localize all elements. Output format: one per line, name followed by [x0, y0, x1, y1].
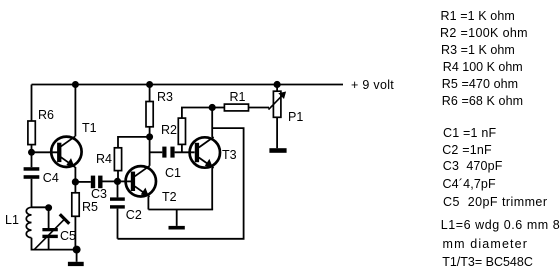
- wire L1 bottom to ground node: [32, 238, 77, 250]
- transistor T1: [51, 136, 81, 167]
- parts list C5: [443, 196, 547, 208]
- ground symbol (P1): [269, 148, 286, 153]
- capacitor C3: [91, 176, 103, 189]
- wire R1 to P1 wiper: [249, 107, 270, 109]
- label T3: [222, 149, 237, 161]
- parts list R1: [441, 10, 515, 22]
- capacitor C5 trimmer plates: [35, 207, 70, 249]
- wire node to C3: [75, 181, 90, 183]
- parts list C2: [442, 144, 492, 156]
- resistor R3: [146, 102, 153, 127]
- capacitor C1: [162, 147, 174, 158]
- label C2: [126, 209, 142, 221]
- wire rail to P1: [276, 85, 278, 92]
- label T1: [82, 122, 97, 134]
- wire R2 bottom to T3 base wire: [181, 144, 183, 152]
- parts list L1 line 2: [443, 238, 529, 250]
- resistor R5: [72, 193, 79, 217]
- wire node to T2 base: [118, 180, 132, 182]
- wire bottom feedback run: [118, 128, 244, 239]
- parts list C1: [443, 127, 496, 139]
- wire P1 to ground: [276, 117, 278, 148]
- resistor R1: [224, 104, 248, 111]
- label C1: [165, 167, 181, 179]
- capacitor C4: [24, 167, 40, 179]
- wire node to T1 base: [32, 151, 58, 153]
- wire C4 to L1: [31, 179, 33, 208]
- wire C1 to T3 base: [175, 151, 195, 153]
- label C4: [43, 172, 59, 184]
- label P1: [288, 111, 303, 123]
- wire R2 top to node A: [182, 108, 212, 119]
- wire R5 to ground node: [74, 216, 76, 249]
- wire +9V power rail: [32, 84, 344, 86]
- wire R3 to rail: [149, 85, 151, 102]
- parts list T1/T3: [442, 256, 533, 268]
- parts list R5: [442, 78, 519, 90]
- inductor L1: [26, 207, 31, 237]
- parts list R3: [441, 44, 515, 56]
- label L1: [5, 214, 19, 226]
- transistor T2: [126, 166, 156, 197]
- potentiometer P1 body: [273, 91, 281, 117]
- wire C2 to bottom feedback wire: [117, 209, 119, 239]
- wire R4 to base node: [117, 171, 119, 182]
- wire T2 collector up to R3: [149, 127, 151, 166]
- node R6/C4/T1-base junction: [28, 149, 35, 156]
- capacitor C2: [110, 197, 125, 208]
- node C3/R4/C2/T2-base: [114, 178, 121, 185]
- ground symbol (left): [68, 262, 84, 266]
- net +9V label: [351, 79, 394, 91]
- parts list C3: [443, 160, 503, 172]
- node T1-emitter/R5/C3: [72, 178, 79, 185]
- node rail/P1: [274, 81, 281, 88]
- label R5: [82, 201, 98, 213]
- wire node to R5: [74, 182, 76, 193]
- trimmer C5 T-bar head: [60, 214, 70, 224]
- resistor R6: [28, 121, 35, 145]
- wire T1 collector to rail: [74, 85, 76, 137]
- wire emitter join: [148, 209, 213, 211]
- node L1/C5 top junction: [45, 204, 52, 211]
- node A R1/R2/T3-collector: [209, 104, 216, 111]
- resistor R4: [114, 148, 121, 171]
- wire T1 emitter to R5 node: [74, 167, 76, 182]
- parts list R2: [440, 27, 528, 39]
- parts list R4: [443, 61, 523, 73]
- label C5: [60, 230, 76, 242]
- node rail/R3: [146, 81, 153, 88]
- trimmer C5 adjustment arrow shaft: [35, 219, 65, 249]
- wire node to C2: [117, 181, 119, 197]
- label R1: [230, 91, 246, 103]
- label C3: [91, 188, 107, 200]
- wire node A to R1: [212, 107, 224, 109]
- label T2: [162, 191, 177, 203]
- wire junction to R4: [118, 137, 150, 148]
- label R3: [157, 91, 173, 103]
- transistor T3: [190, 137, 220, 168]
- resistor R2: [178, 118, 185, 144]
- label R6: [38, 109, 54, 121]
- wire T3 collector to node A: [211, 108, 213, 138]
- ground symbol (middle): [169, 226, 185, 230]
- parts list L1 line 1: [441, 219, 560, 231]
- label R2: [161, 124, 177, 136]
- node rail/T1-collector: [72, 81, 79, 88]
- node bottom ground junction: [73, 246, 81, 254]
- wire emitters to ground: [176, 210, 178, 226]
- label R4: [96, 153, 112, 165]
- node R3/R4/collector junction: [146, 133, 153, 140]
- wire T3 emitter down: [211, 168, 213, 210]
- wire T2 emitter down: [147, 197, 149, 210]
- wire rail to R6: [31, 85, 33, 122]
- wire collector node to C1: [150, 151, 163, 153]
- wire R6 to C4: [31, 145, 33, 168]
- wire L1 top to C5 node: [32, 206, 49, 208]
- parts list C4: [443, 178, 496, 190]
- wire junction to ground: [76, 250, 78, 262]
- parts list R6: [442, 95, 523, 107]
- potentiometer P1 wiper arrow: [269, 92, 286, 110]
- wire C3 to T2 base node: [103, 180, 118, 182]
